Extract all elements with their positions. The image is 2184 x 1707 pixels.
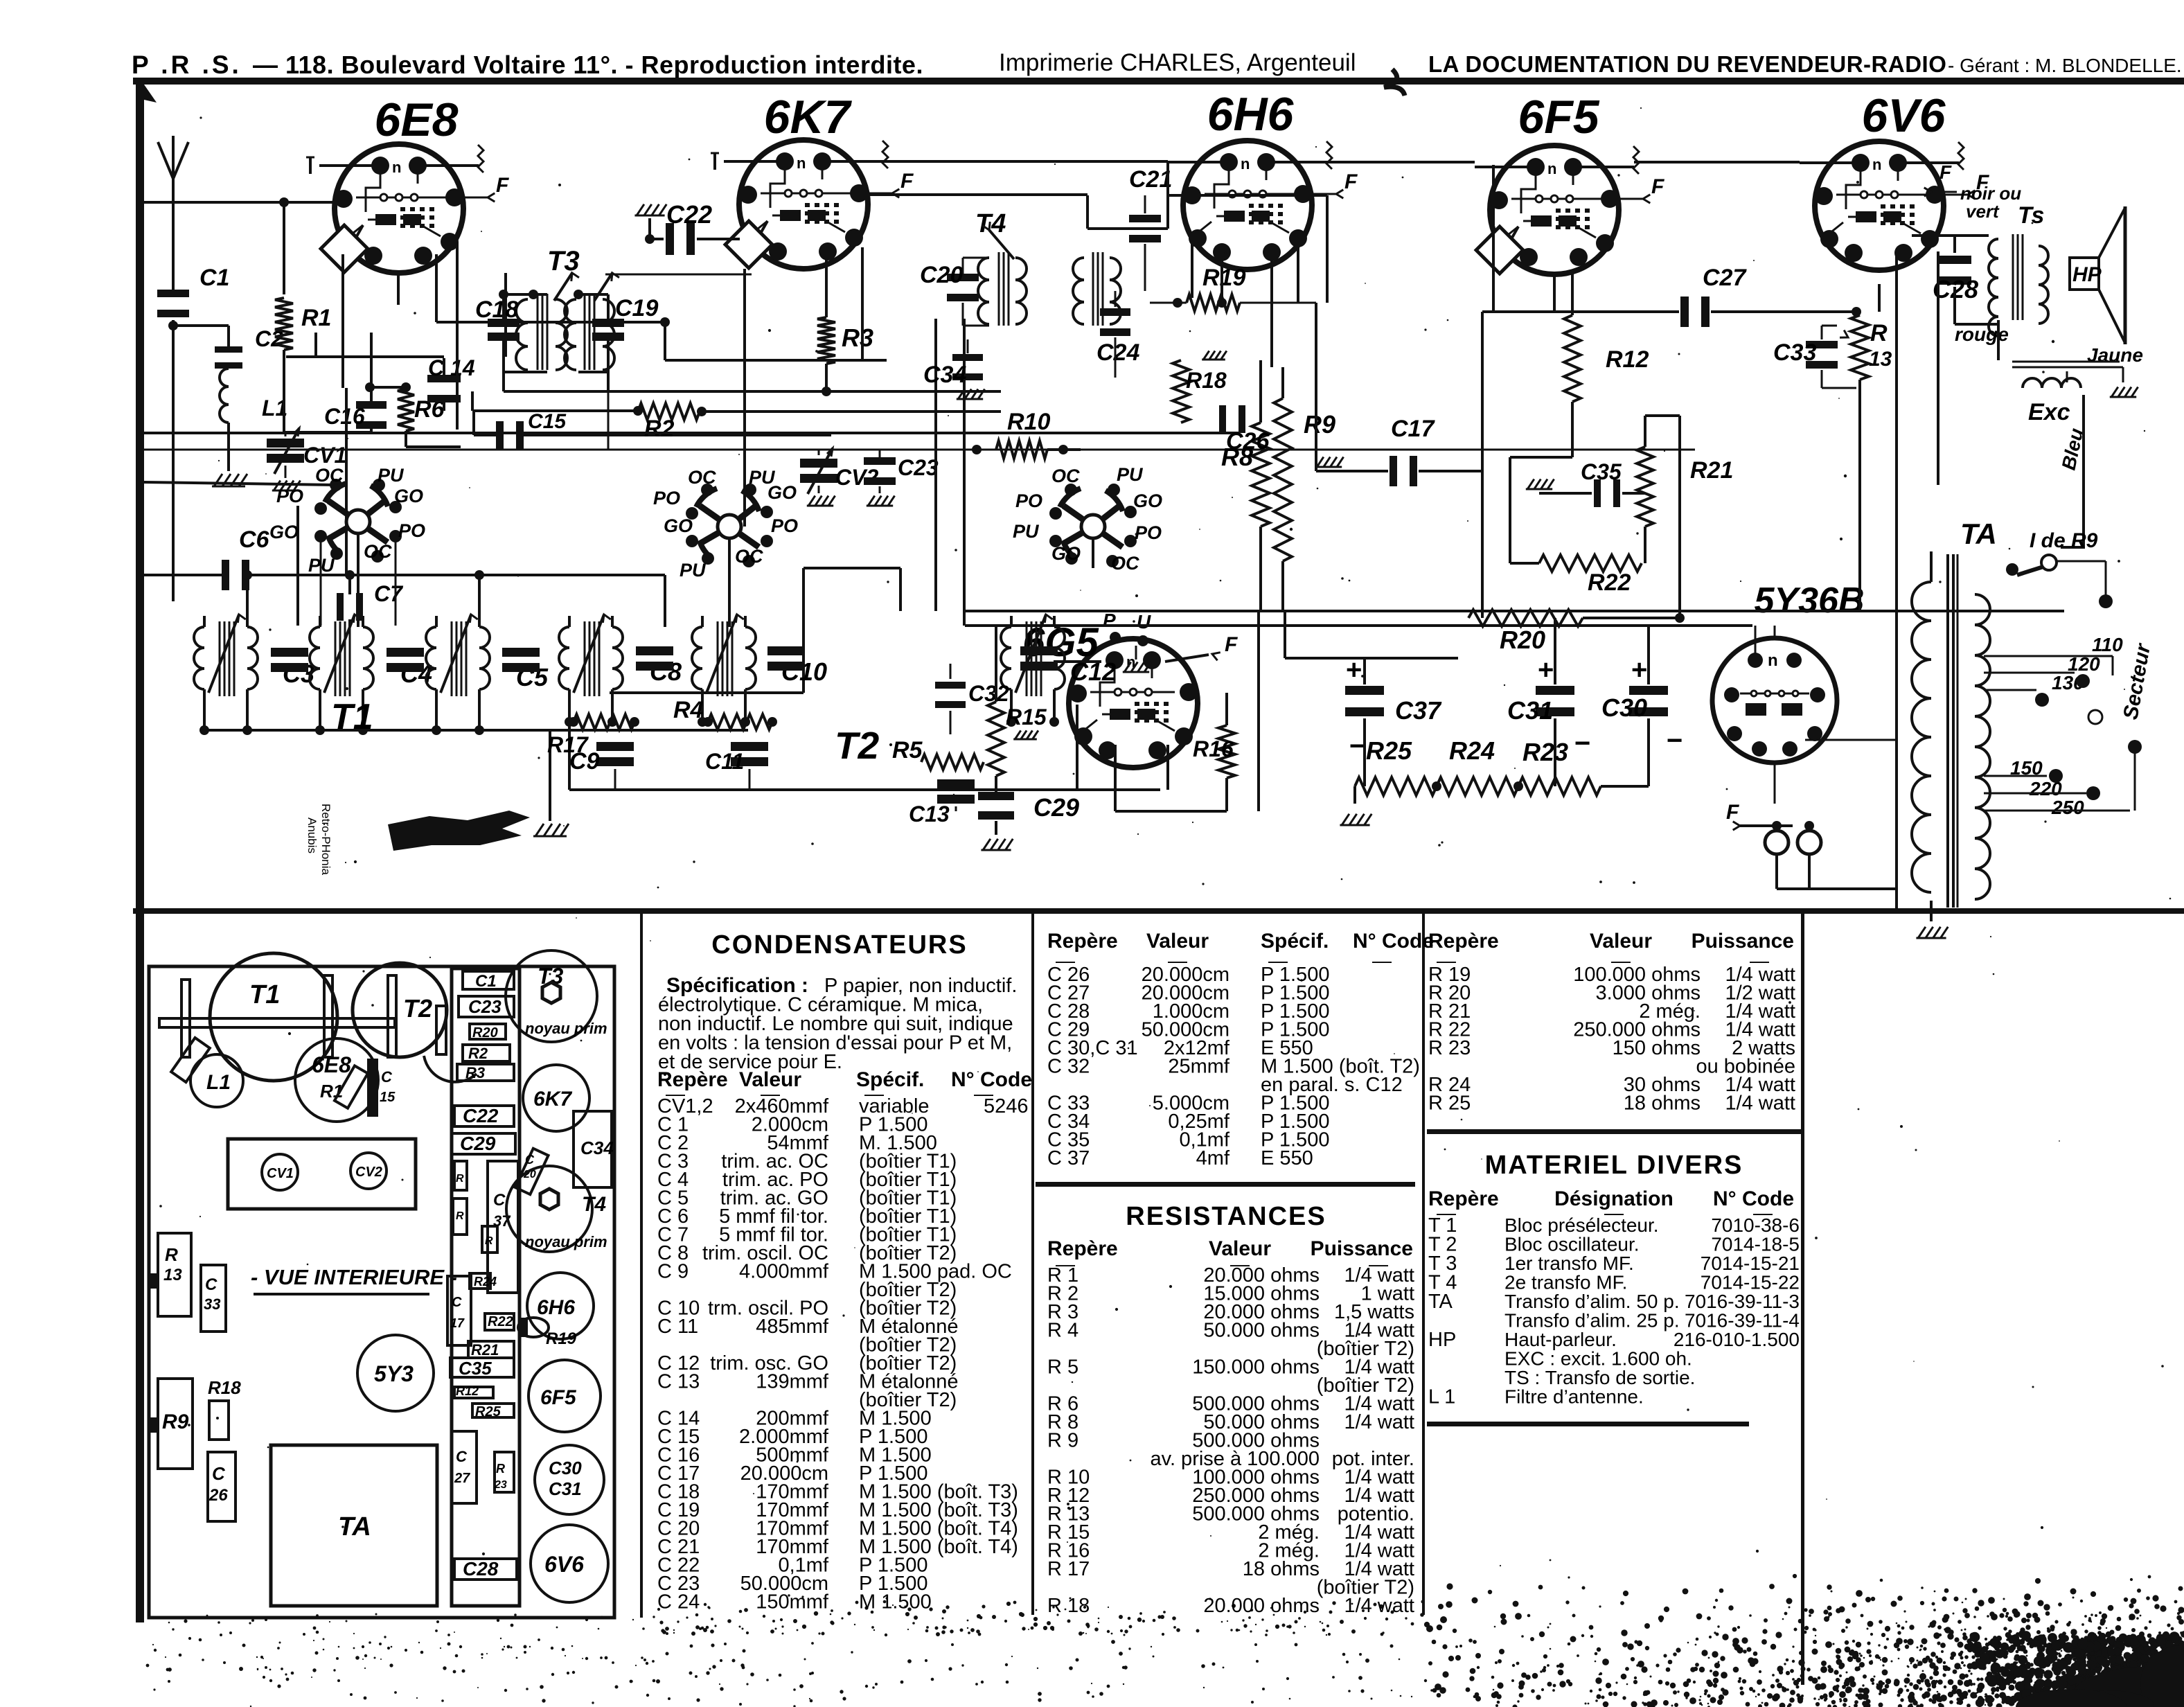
svg-text:13: 13 xyxy=(1869,348,1892,371)
svg-text:R3: R3 xyxy=(842,324,873,352)
svg-text:F: F xyxy=(1726,801,1739,824)
svg-text:OC: OC xyxy=(735,546,763,567)
svg-text:OC: OC xyxy=(315,465,344,486)
svg-text:C15: C15 xyxy=(528,410,567,433)
svg-text:C35: C35 xyxy=(459,1358,492,1379)
svg-text:6K7: 6K7 xyxy=(533,1088,572,1111)
svg-text:F: F xyxy=(1225,633,1238,656)
svg-text:OC: OC xyxy=(1051,466,1080,486)
svg-text:R9: R9 xyxy=(1304,410,1335,439)
svg-text:150mmf: 150mmf xyxy=(756,1591,829,1613)
svg-text:6H6: 6H6 xyxy=(537,1296,575,1319)
svg-text:5246: 5246 xyxy=(984,1095,1029,1117)
svg-text:7010-38-6: 7010-38-6 xyxy=(1711,1214,1800,1236)
svg-text:C34: C34 xyxy=(580,1138,614,1158)
svg-text:RESISTANCES: RESISTANCES xyxy=(1126,1202,1326,1231)
svg-text:7014-18-5: 7014-18-5 xyxy=(1711,1234,1800,1255)
svg-text:33: 33 xyxy=(204,1295,220,1313)
svg-text:R 18: R 18 xyxy=(1047,1595,1090,1617)
svg-text:150 ohms: 150 ohms xyxy=(1613,1037,1701,1059)
svg-text:C13: C13 xyxy=(909,802,950,826)
svg-text:13: 13 xyxy=(163,1266,182,1284)
svg-text:L1: L1 xyxy=(206,1071,231,1094)
svg-text:U: U xyxy=(1137,611,1151,633)
svg-text:C: C xyxy=(493,1191,506,1210)
svg-text:R 25: R 25 xyxy=(1428,1093,1471,1115)
svg-text:PU: PU xyxy=(680,560,707,581)
svg-text:Transfo d’alim. 50 p.: Transfo d’alim. 50 p. xyxy=(1504,1291,1680,1312)
svg-text:n: n xyxy=(1241,155,1250,173)
svg-text:−: − xyxy=(1574,728,1590,759)
svg-text:C26: C26 xyxy=(1226,428,1270,454)
svg-text:C16: C16 xyxy=(324,404,365,429)
svg-text:P: P xyxy=(1103,610,1116,631)
svg-text:Transfo d’alim. 25 p.: Transfo d’alim. 25 p. xyxy=(1504,1310,1680,1332)
svg-text:R: R xyxy=(456,1210,464,1222)
svg-text:GO: GO xyxy=(664,515,693,536)
svg-text:R2: R2 xyxy=(644,416,675,442)
svg-text:110: 110 xyxy=(2092,634,2123,655)
svg-text:R19: R19 xyxy=(1202,265,1245,291)
svg-text:250: 250 xyxy=(2051,797,2084,818)
svg-text:6V6: 6V6 xyxy=(544,1552,584,1577)
svg-text:C 24: C 24 xyxy=(657,1591,700,1613)
svg-text:R1: R1 xyxy=(301,305,331,331)
svg-text:R: R xyxy=(165,1244,178,1265)
svg-text:F: F xyxy=(1939,161,1952,183)
svg-text:C33: C33 xyxy=(1773,339,1816,366)
svg-text:2e transfo MF.: 2e transfo MF. xyxy=(1504,1272,1627,1293)
svg-text:C30: C30 xyxy=(1601,693,1647,722)
svg-text:C31: C31 xyxy=(1507,696,1553,725)
svg-text:R24: R24 xyxy=(474,1275,497,1289)
svg-text:C28: C28 xyxy=(463,1558,499,1580)
svg-text:T2: T2 xyxy=(403,994,432,1023)
svg-text:5Y3: 5Y3 xyxy=(374,1361,414,1386)
svg-text:C21: C21 xyxy=(1129,166,1172,193)
svg-text:PO: PO xyxy=(276,486,303,506)
svg-text:C 32: C 32 xyxy=(1047,1056,1090,1078)
svg-text:R: R xyxy=(485,1235,493,1247)
svg-text:1/4 watt: 1/4 watt xyxy=(1725,1093,1795,1115)
svg-text:7016-39-11-4: 7016-39-11-4 xyxy=(1685,1310,1800,1332)
svg-text:18 ohms: 18 ohms xyxy=(1243,1558,1320,1580)
svg-text:C 11: C 11 xyxy=(657,1316,698,1338)
svg-text:CV1: CV1 xyxy=(267,1166,294,1181)
svg-text:N° Code: N° Code xyxy=(1353,930,1434,953)
svg-text:M 1.500: M 1.500 xyxy=(859,1591,932,1613)
svg-text:R: R xyxy=(496,1462,505,1476)
svg-text:R20: R20 xyxy=(1500,626,1545,654)
svg-text:C35: C35 xyxy=(1581,459,1622,484)
svg-text:25mmf: 25mmf xyxy=(1168,1056,1230,1078)
svg-text:OC: OC xyxy=(688,467,716,488)
svg-text:CONDENSATEURS: CONDENSATEURS xyxy=(711,930,967,959)
svg-text:LA DOCUMENTATION DU REVENDEUR-: LA DOCUMENTATION DU REVENDEUR-RADIO xyxy=(1428,51,1946,77)
svg-text:7014-15-22: 7014-15-22 xyxy=(1701,1272,1800,1293)
svg-text:EXC : excit. 1.600 oh.: EXC : excit. 1.600 oh. xyxy=(1504,1348,1692,1370)
svg-text:C: C xyxy=(212,1463,226,1484)
svg-text:R18: R18 xyxy=(208,1377,241,1398)
svg-text:—: — xyxy=(1372,950,1392,971)
svg-text:PO: PO xyxy=(1135,522,1162,543)
svg-text:6V6: 6V6 xyxy=(1862,89,1946,142)
svg-text:1/4 watt: 1/4 watt xyxy=(1344,1411,1414,1433)
svg-text:C27: C27 xyxy=(1703,265,1747,291)
svg-text:PO: PO xyxy=(771,515,798,536)
svg-text:C20: C20 xyxy=(920,262,963,288)
svg-text:R 4: R 4 xyxy=(1047,1320,1078,1342)
svg-text:Bloc oscillateur.: Bloc oscillateur. xyxy=(1504,1234,1640,1255)
svg-text:F: F xyxy=(1344,170,1358,193)
svg-text:C: C xyxy=(456,1448,468,1465)
svg-text:C12: C12 xyxy=(1070,657,1116,686)
svg-text:R: R xyxy=(456,1173,464,1185)
svg-text:R10: R10 xyxy=(1007,409,1050,435)
svg-text:C32: C32 xyxy=(968,681,1009,706)
svg-text:PO: PO xyxy=(398,520,425,541)
svg-text:R25: R25 xyxy=(475,1404,501,1419)
svg-text:Puissance: Puissance xyxy=(1692,930,1794,953)
svg-text:Bloc présélecteur.: Bloc présélecteur. xyxy=(1504,1214,1659,1236)
svg-text:C31: C31 xyxy=(549,1478,582,1499)
svg-text:Ts: Ts xyxy=(2018,202,2044,229)
svg-text:C 14: C 14 xyxy=(428,355,475,380)
svg-text:Secteur: Secteur xyxy=(2119,641,2155,721)
svg-text:C: C xyxy=(381,1068,393,1086)
svg-text:PU: PU xyxy=(378,465,405,486)
svg-text:R12: R12 xyxy=(1606,346,1649,373)
svg-text:C 37: C 37 xyxy=(1047,1147,1090,1169)
svg-text:R3: R3 xyxy=(465,1064,485,1081)
svg-text:TS : Transfo de sortie.: TS : Transfo de sortie. xyxy=(1504,1367,1695,1388)
svg-text:C7: C7 xyxy=(374,581,404,606)
svg-text:150.000 ohms: 150.000 ohms xyxy=(1192,1356,1320,1379)
svg-text:HP: HP xyxy=(1428,1329,1456,1351)
svg-text:R15: R15 xyxy=(1006,705,1047,729)
svg-text:4.000mmf: 4.000mmf xyxy=(739,1261,829,1283)
svg-text:C29: C29 xyxy=(1033,793,1079,822)
svg-text:−: − xyxy=(1667,725,1683,756)
svg-text:noyau prim: noyau prim xyxy=(525,1020,607,1037)
svg-text:R 17: R 17 xyxy=(1047,1558,1090,1580)
svg-text:Puissance: Puissance xyxy=(1311,1237,1413,1260)
svg-text:R16: R16 xyxy=(1193,736,1234,761)
svg-text:18 ohms: 18 ohms xyxy=(1624,1093,1701,1115)
svg-text:4mf: 4mf xyxy=(1196,1147,1230,1169)
svg-text:OC: OC xyxy=(364,541,392,562)
svg-text:— 118. Boulevard Voltaire: — 118. Boulevard Voltaire 11°. - Reprodu… xyxy=(253,51,923,79)
svg-text:R18: R18 xyxy=(1186,368,1227,393)
svg-text:MATERIEL DIVERS: MATERIEL DIVERS xyxy=(1485,1151,1743,1180)
svg-text:6F5: 6F5 xyxy=(540,1386,577,1409)
svg-text:T3: T3 xyxy=(547,246,580,276)
svg-text:F: F xyxy=(496,174,509,197)
svg-text:Filtre d’antenne.: Filtre d’antenne. xyxy=(1504,1386,1644,1408)
svg-text:17: 17 xyxy=(450,1316,465,1330)
svg-text:GO: GO xyxy=(1051,543,1081,564)
svg-text:n: n xyxy=(392,159,401,176)
svg-text:7016-39-11-3: 7016-39-11-3 xyxy=(1685,1291,1800,1312)
svg-text:n: n xyxy=(797,154,806,172)
svg-text:R9: R9 xyxy=(162,1410,189,1433)
svg-text:1/4 watt: 1/4 watt xyxy=(1344,1595,1414,1617)
svg-text:PO: PO xyxy=(653,488,680,508)
svg-text:5Y36B: 5Y36B xyxy=(1755,581,1865,621)
svg-text:C22: C22 xyxy=(666,200,712,229)
svg-text:C 13: C 13 xyxy=(657,1371,700,1393)
svg-text:20.000 ohms: 20.000 ohms xyxy=(1203,1595,1320,1617)
svg-text:1er transfo MF.: 1er transfo MF. xyxy=(1504,1253,1634,1274)
svg-text:R22: R22 xyxy=(488,1314,513,1329)
svg-text:C: C xyxy=(525,1153,535,1167)
svg-text:L 1: L 1 xyxy=(1428,1386,1455,1408)
svg-text:C 9: C 9 xyxy=(657,1261,689,1283)
svg-text:C23: C23 xyxy=(468,996,501,1017)
svg-text:PU: PU xyxy=(1013,521,1040,542)
svg-text:216-010-1.500: 216-010-1.500 xyxy=(1673,1329,1800,1350)
svg-text:GO: GO xyxy=(394,486,423,506)
svg-text:rouge: rouge xyxy=(1955,324,2009,345)
svg-text:OC: OC xyxy=(1111,553,1139,574)
svg-text:C1: C1 xyxy=(475,972,497,991)
svg-text:Exc: Exc xyxy=(2028,399,2070,425)
svg-text:R5: R5 xyxy=(892,737,923,763)
svg-text:C: C xyxy=(205,1275,217,1294)
svg-text:−: − xyxy=(1349,731,1365,761)
svg-text:vert: vert xyxy=(1966,201,2000,222)
svg-text:C1: C1 xyxy=(199,265,229,291)
svg-text:CV1: CV1 xyxy=(303,443,346,468)
svg-text:TA: TA xyxy=(1428,1291,1453,1313)
svg-text:6K7: 6K7 xyxy=(764,91,853,143)
svg-text:noyau prim: noyau prim xyxy=(525,1233,607,1250)
svg-text:F: F xyxy=(1651,175,1664,198)
svg-text:n: n xyxy=(1547,160,1556,177)
svg-text:n: n xyxy=(1768,651,1778,670)
svg-text:R 5: R 5 xyxy=(1047,1356,1078,1379)
svg-text:C17: C17 xyxy=(1391,416,1435,442)
svg-text:Anubis: Anubis xyxy=(305,817,319,853)
svg-text:27: 27 xyxy=(454,1471,470,1486)
svg-text:C30: C30 xyxy=(549,1458,582,1478)
svg-text:- Gérant : M. BLONDELLE.: - Gérant : M. BLONDELLE. xyxy=(1948,55,2182,76)
svg-text:Imprimerie CHARLES, Argenteu: Imprimerie CHARLES, Argenteuil xyxy=(999,49,1356,76)
svg-text:6H6: 6H6 xyxy=(1207,88,1295,141)
svg-text:R 9: R 9 xyxy=(1047,1430,1078,1452)
svg-text:23: 23 xyxy=(494,1479,507,1491)
svg-text:R12: R12 xyxy=(456,1384,479,1398)
svg-text:R22: R22 xyxy=(1588,569,1631,596)
svg-text:R 23: R 23 xyxy=(1428,1037,1471,1059)
svg-text:6F5: 6F5 xyxy=(1518,91,1599,143)
svg-text:n: n xyxy=(1872,156,1881,173)
svg-text:15: 15 xyxy=(380,1090,396,1105)
svg-text:26: 26 xyxy=(208,1486,228,1505)
svg-text:E 550: E 550 xyxy=(1261,1147,1313,1169)
svg-text:PO: PO xyxy=(1015,490,1042,511)
svg-text:GO: GO xyxy=(269,522,299,542)
svg-text:C29: C29 xyxy=(460,1133,496,1154)
svg-text:HP: HP xyxy=(2072,263,2102,286)
svg-text:+: + xyxy=(1538,655,1554,685)
svg-text:R2: R2 xyxy=(468,1045,488,1062)
svg-text:TA: TA xyxy=(1960,518,1997,550)
svg-text:7014-15-21: 7014-15-21 xyxy=(1701,1253,1800,1274)
svg-text:Retro-PHonia: Retro-PHonia xyxy=(319,804,332,876)
svg-text:P .R .S.: P .R .S. xyxy=(132,51,242,79)
svg-text:C: C xyxy=(452,1295,462,1310)
svg-text:R25: R25 xyxy=(1366,736,1412,765)
svg-text:6E8: 6E8 xyxy=(312,1052,351,1077)
svg-text:CV2: CV2 xyxy=(355,1165,382,1180)
svg-text:R: R xyxy=(1870,320,1888,346)
svg-text:GO: GO xyxy=(1133,490,1162,511)
svg-text:R20: R20 xyxy=(472,1025,498,1041)
svg-text:GO: GO xyxy=(767,482,797,503)
svg-text:R19: R19 xyxy=(546,1329,577,1348)
svg-text:R24: R24 xyxy=(1449,736,1495,765)
svg-text:C37: C37 xyxy=(1395,696,1442,725)
svg-text:R21: R21 xyxy=(1690,457,1733,484)
svg-text:C9: C9 xyxy=(569,748,600,775)
svg-text:C6: C6 xyxy=(239,527,270,553)
svg-text:R4: R4 xyxy=(673,697,704,723)
svg-text:Haut-parleur.: Haut-parleur. xyxy=(1504,1329,1617,1350)
svg-text:C34: C34 xyxy=(923,362,966,388)
svg-text:139mmf: 139mmf xyxy=(756,1371,829,1393)
svg-text:T1: T1 xyxy=(249,980,280,1009)
svg-text:PU: PU xyxy=(308,555,335,576)
svg-text:C24: C24 xyxy=(1097,339,1139,366)
svg-text:PU: PU xyxy=(1117,464,1144,485)
svg-text:F: F xyxy=(900,170,914,193)
svg-text:C23: C23 xyxy=(898,455,939,480)
svg-text:+: + xyxy=(1631,655,1647,685)
svg-text:50.000 ohms: 50.000 ohms xyxy=(1203,1320,1320,1342)
svg-text:C19: C19 xyxy=(615,295,658,321)
svg-text:6E8: 6E8 xyxy=(375,94,459,146)
svg-text:T4: T4 xyxy=(582,1193,606,1216)
svg-text:C18: C18 xyxy=(475,297,518,323)
svg-text:485mmf: 485mmf xyxy=(756,1316,829,1338)
svg-text:R23: R23 xyxy=(1522,738,1568,766)
svg-text:- VUE INTERIEURE -: - VUE INTERIEURE - xyxy=(251,1265,457,1289)
svg-text:T2: T2 xyxy=(835,724,880,767)
svg-text:R21: R21 xyxy=(471,1341,499,1359)
svg-text:C11: C11 xyxy=(705,749,744,774)
svg-text:I de R9: I de R9 xyxy=(2030,529,2098,552)
svg-text:C22: C22 xyxy=(463,1105,499,1126)
